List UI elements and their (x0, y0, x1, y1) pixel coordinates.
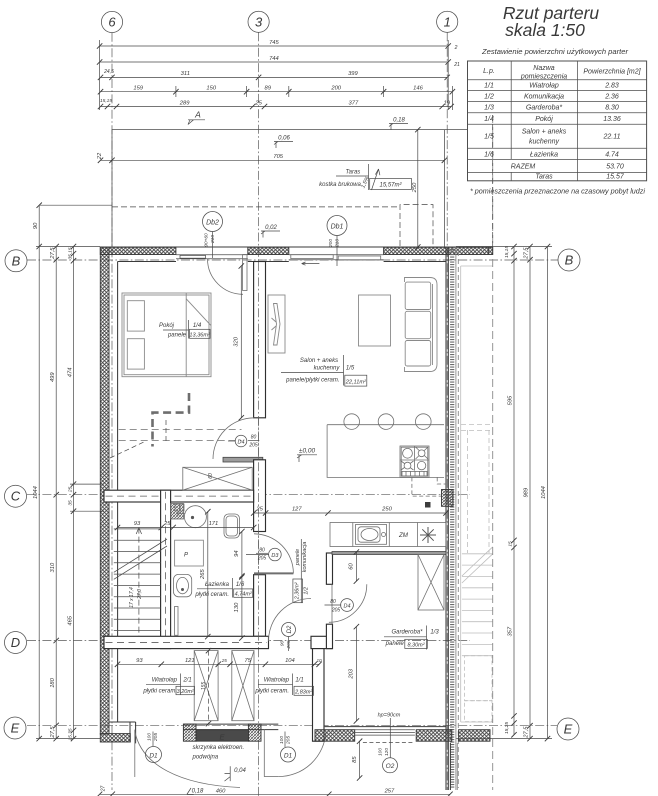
garderoba north wall (332, 552, 446, 555)
closet X right (232, 651, 254, 721)
terrace slope 1.5% arrow (372, 169, 379, 190)
kitchen island counter (327, 425, 444, 478)
bath small symbols (175, 504, 180, 511)
svg-text:705: 705 (273, 154, 283, 160)
svg-text:27,0: 27,0 (137, 589, 143, 600)
bar stools (344, 414, 360, 430)
axis B horizontal (27, 259, 558, 261)
svg-text:Łazienka: Łazienka (205, 582, 230, 588)
svg-text:2: 2 (454, 45, 458, 51)
svg-text:panele/płytki ceram.: panele/płytki ceram. (285, 378, 339, 384)
bed in Pokoj (122, 293, 211, 377)
axis 1 vertical (446, 32, 448, 790)
svg-text:podwójna: podwójna (192, 755, 219, 761)
area table (468, 61, 647, 181)
svg-text:8,30m²: 8,30m² (407, 643, 424, 649)
stairs walking line (138, 528, 140, 636)
komunikacja east wall upper (326, 553, 332, 584)
kitchen dim row 25/127/250 (254, 512, 446, 514)
dim 203 (355, 627, 357, 721)
svg-text:89: 89 (264, 86, 271, 92)
svg-text:8.30: 8.30 (605, 105, 619, 112)
svg-text:989: 989 (524, 487, 530, 497)
svg-text:A: A (194, 110, 201, 120)
left dim chain 90/1044 (38, 205, 40, 738)
svg-text:1/5: 1/5 (346, 366, 355, 372)
svg-text:4.74: 4.74 (605, 151, 619, 158)
party wall right (446, 247, 448, 790)
door D1 left 100/205 (134, 730, 136, 777)
svg-text:120: 120 (384, 748, 390, 756)
svg-text:Salon + aneks: Salon + aneks (300, 358, 338, 364)
svg-text:1/2: 1/2 (484, 93, 494, 100)
svg-text:93: 93 (134, 521, 141, 527)
dim 60 garderoba nook (355, 552, 357, 581)
right dim chain 1044 (547, 247, 549, 739)
svg-text:Db1: Db1 (331, 224, 344, 231)
dim 85 entrance (359, 741, 361, 778)
svg-text:1044: 1044 (33, 486, 39, 499)
svg-text:kuchenny: kuchenny (314, 366, 341, 372)
svg-text:E: E (11, 721, 20, 736)
terrace dim 705 and 22 (101, 159, 445, 161)
svg-text:panele: panele (385, 641, 405, 647)
svg-text:Taras: Taras (535, 174, 553, 181)
svg-text:D: D (11, 635, 20, 650)
svg-text:Powierzchnia [m2]: Powierzchnia [m2] (583, 69, 641, 76)
svg-text:płytki ceram.: płytki ceram. (142, 689, 177, 695)
svg-text:80: 80 (330, 599, 336, 605)
svg-text:1/6: 1/6 (236, 582, 245, 588)
svg-text:499: 499 (50, 372, 56, 382)
axis 3 overlay through walls (258, 262, 260, 648)
closet X left (194, 651, 218, 721)
svg-text:1/3: 1/3 (430, 630, 439, 636)
svg-text:1: 1 (444, 14, 451, 29)
left dim chain 35,15/474/25/35/465/15,35 (73, 247, 75, 739)
svg-text:25: 25 (255, 506, 263, 512)
right dim chain 15,15/595/15/357/15,25 (513, 247, 515, 735)
svg-text:377: 377 (349, 100, 359, 106)
svg-text:Salon + aneks: Salon + aneks (522, 129, 567, 136)
door D4 pokoj 80/205 (213, 418, 254, 459)
svg-text:100: 100 (279, 736, 285, 744)
svg-text:skala 1:50: skala 1:50 (505, 20, 585, 40)
svg-text:27,5: 27,5 (50, 726, 56, 739)
svg-text:D4: D4 (237, 439, 244, 445)
svg-text:465: 465 (68, 615, 74, 625)
terrace paving dashed edge (112, 206, 400, 208)
svg-text:0,06: 0,06 (278, 136, 290, 142)
svg-text:205: 205 (257, 556, 267, 562)
terrace dim 250 (417, 130, 419, 247)
svg-text:27,5: 27,5 (524, 726, 530, 739)
left dim chain 27,5/499/310/180/27,5 (55, 247, 57, 739)
svg-text:0,02: 0,02 (265, 225, 277, 231)
wall D bath south (104, 636, 269, 648)
toilet (224, 514, 240, 538)
svg-text:93: 93 (136, 658, 143, 664)
svg-text:53.70: 53.70 (606, 164, 624, 171)
svg-text:100: 100 (378, 748, 384, 756)
svg-text:155: 155 (201, 682, 207, 691)
svg-text:205: 205 (286, 736, 292, 745)
svg-text:Pokój: Pokój (159, 323, 175, 329)
mirrored unit boundary dashed (492, 115, 494, 790)
svg-text:B: B (12, 253, 21, 268)
svg-text:80: 80 (259, 548, 265, 554)
svg-text:P: P (184, 553, 188, 559)
svg-text:90: 90 (33, 222, 39, 229)
washbasin (174, 574, 192, 596)
bath corner basin hatch (171, 504, 184, 520)
axis 3 vertical (258, 32, 260, 796)
svg-text:1044: 1044 (541, 486, 547, 499)
svg-text:skrzynka elektroen.: skrzynka elektroen. (193, 745, 245, 751)
svg-text:210: 210 (335, 239, 341, 248)
top dimension row 744 (100, 61, 449, 63)
svg-text:205: 205 (286, 640, 292, 649)
radiator bath (175, 607, 179, 636)
electrical box E (skrzynka) (196, 730, 248, 741)
svg-text:1/4: 1/4 (193, 323, 202, 329)
svg-text:19: 19 (443, 100, 450, 106)
svg-text:Wiatrołap: Wiatrołap (529, 83, 559, 90)
svg-text:311: 311 (181, 71, 190, 77)
svg-text:C: C (11, 489, 21, 504)
svg-text:265: 265 (200, 569, 206, 580)
svg-text:310: 310 (50, 562, 56, 572)
svg-text:60: 60 (349, 563, 355, 570)
door D1 right 100/205 (263, 730, 265, 777)
kitchen north wall stub (223, 457, 263, 462)
bottom-left exterior wall corner (100, 734, 130, 742)
svg-text:2,83m²: 2,83m² (294, 689, 312, 695)
svg-text:2.36: 2.36 (604, 93, 619, 100)
sofa (405, 278, 438, 372)
svg-text:Zestawienie powierzchni użytko: Zestawienie powierzchni użytkowych parte… (481, 47, 629, 56)
svg-text:35,15: 35,15 (68, 247, 74, 259)
svg-text:205: 205 (153, 733, 159, 742)
pokoj interior dim 320 (240, 266, 242, 418)
svg-text:27,5: 27,5 (524, 247, 530, 260)
top dimension row 745 (100, 45, 449, 47)
gas stove (400, 446, 429, 477)
svg-text:203: 203 (349, 668, 355, 679)
door D2 90/205 (269, 599, 312, 642)
svg-text:399: 399 (348, 71, 358, 77)
svg-text:13.36: 13.36 (603, 116, 621, 123)
svg-text:25: 25 (221, 658, 228, 663)
svg-text:2,36m²: 2,36m² (294, 582, 300, 600)
axis C horizontal (27, 494, 470, 496)
svg-text:75: 75 (245, 658, 252, 664)
kitchen lower counter (330, 523, 446, 547)
svg-text:Pokój: Pokój (535, 116, 553, 123)
interior dim row 93/121/25/75/104/10 (118, 663, 320, 665)
bath big circle fixture (184, 506, 206, 528)
svg-text:90+60: 90+60 (204, 233, 210, 247)
svg-text:15,25: 15,25 (504, 722, 510, 734)
stairs break line (114, 546, 167, 579)
wall C pokoj south / bath north (104, 490, 254, 502)
svg-text:0,04: 0,04 (234, 768, 246, 774)
svg-text:L.p.: L.p. (483, 68, 495, 75)
extension lines top (100, 40, 453, 110)
svg-text:0,18: 0,18 (393, 118, 405, 124)
svg-text:15,19: 15,19 (100, 98, 112, 104)
svg-text:22.11: 22.11 (603, 134, 621, 141)
svg-text:94: 94 (234, 550, 240, 556)
svg-text:171: 171 (209, 521, 219, 527)
svg-text:27: 27 (101, 786, 107, 793)
svg-text:10: 10 (316, 658, 322, 663)
svg-text:komunikacja: komunikacja (302, 542, 308, 573)
garderoba south wall with window O2 (325, 726, 446, 728)
wiatrolap/garderoba wall (313, 649, 325, 742)
axis 6 vertical (111, 33, 113, 790)
svg-text:2/1: 2/1 (182, 678, 191, 684)
svg-text:kuchenny: kuchenny (529, 139, 559, 146)
svg-text:595: 595 (508, 395, 514, 405)
svg-text:* pomieszczenia przeznaczone n: * pomieszczenia przeznaczone na czasowy … (470, 187, 645, 196)
svg-text:Wiatrołap: Wiatrołap (264, 678, 290, 684)
svg-text:3: 3 (255, 14, 263, 29)
axis D horizontal (27, 640, 470, 642)
svg-text:3,20m²: 3,20m² (177, 689, 194, 695)
svg-text:80: 80 (251, 435, 257, 441)
svg-text:250: 250 (381, 506, 392, 512)
svg-text:744: 744 (269, 56, 279, 62)
svg-text:1/1: 1/1 (484, 83, 494, 90)
window O2 100/120 (355, 729, 415, 731)
svg-text:60: 60 (208, 473, 214, 479)
svg-text:146: 146 (413, 86, 423, 92)
left exterior wall (100, 247, 109, 734)
svg-text:180: 180 (50, 677, 56, 687)
svg-text:127: 127 (292, 506, 302, 512)
svg-text:0,18: 0,18 (192, 789, 204, 795)
svg-text:Wiatrołap: Wiatrołap (152, 678, 178, 684)
wall stairs/bath (161, 490, 171, 648)
svg-text:159: 159 (133, 86, 143, 92)
svg-text:205: 205 (331, 608, 341, 614)
svg-text:15,57m²: 15,57m² (379, 183, 402, 189)
svg-text:35: 35 (68, 500, 74, 506)
svg-text:289: 289 (179, 100, 190, 106)
svg-text:745: 745 (269, 40, 279, 46)
svg-text:22: 22 (97, 152, 103, 160)
svg-text:±0,00: ±0,00 (299, 448, 316, 455)
svg-text:205: 205 (248, 443, 258, 449)
terrace outline (112, 130, 468, 247)
svg-text:Taras: Taras (346, 170, 361, 176)
svg-text:2.83: 2.83 (604, 83, 619, 90)
neighbouring mirrored unit outline (461, 266, 493, 722)
svg-text:21: 21 (453, 62, 460, 68)
axis E horizontal (27, 724, 557, 726)
svg-text:25: 25 (163, 521, 171, 527)
svg-text:100: 100 (147, 733, 153, 741)
svg-text:panele: panele (167, 333, 187, 339)
staircase (114, 529, 161, 631)
svg-text:ZM: ZM (398, 532, 409, 539)
dim 265 bath length (207, 512, 209, 637)
svg-text:460: 460 (216, 788, 226, 794)
svg-text:357: 357 (508, 626, 514, 636)
svg-text:13,36m²: 13,36m² (189, 332, 211, 338)
svg-text:1/1: 1/1 (295, 678, 303, 684)
mirrored staircase steps (462, 547, 493, 722)
TV sideboard (268, 295, 285, 353)
svg-text:O2: O2 (386, 763, 395, 770)
svg-text:24,5: 24,5 (103, 69, 114, 75)
svg-text:D4: D4 (343, 604, 350, 610)
wall bath east below door D3 (254, 575, 266, 637)
svg-text:B: B (565, 253, 574, 268)
svg-text:17 x 17,4: 17 x 17,4 (129, 587, 135, 608)
svg-text:Garderoba*: Garderoba* (526, 105, 562, 112)
svg-text:Garderoba*: Garderoba* (391, 630, 423, 636)
svg-text:15.57: 15.57 (606, 174, 625, 181)
wall between Pokoj and Salon (254, 262, 266, 418)
svg-text:D2: D2 (287, 625, 293, 633)
svg-text:4,74m²: 4,74m² (235, 592, 252, 598)
svg-text:90: 90 (280, 641, 286, 647)
dim 94 (241, 532, 243, 576)
svg-text:płytki ceram.: płytki ceram. (194, 592, 229, 598)
svg-text:1/2: 1/2 (304, 587, 310, 595)
right dim chain 27,5/989/27,5 (529, 247, 531, 739)
svg-text:Nazwa: Nazwa (533, 65, 555, 72)
stairs interior dim 93/25/171 (118, 527, 254, 529)
svg-text:121: 121 (185, 658, 195, 664)
svg-text:pomieszczenia: pomieszczenia (520, 74, 567, 81)
svg-text:Komunikacja: Komunikacja (524, 93, 564, 100)
top dimension row 311/399 (101, 76, 448, 78)
svg-text:320: 320 (234, 336, 240, 346)
svg-text:1/3: 1/3 (484, 105, 494, 112)
svg-text:Db2: Db2 (206, 220, 219, 227)
svg-text:250: 250 (412, 182, 418, 193)
svg-text:6: 6 (108, 15, 116, 30)
top exterior wall (100, 246, 492, 248)
svg-text:130: 130 (234, 602, 240, 612)
svg-text:27,5: 27,5 (50, 247, 56, 260)
svg-text:RAZEM: RAZEM (511, 164, 536, 171)
kitchen sink (356, 525, 387, 545)
right extension lines (456, 247, 552, 739)
door D3 bath 80/205 (254, 572, 293, 574)
wall D piece right of door D2 (311, 636, 332, 648)
coffee table (359, 295, 391, 346)
svg-text:15: 15 (508, 541, 514, 547)
svg-text:hp=90cm: hp=90cm (378, 713, 401, 719)
svg-text:panele: panele (295, 549, 301, 567)
kitchen tall units with X (183, 467, 252, 490)
overhead dashed lines pokoj (119, 429, 242, 431)
svg-text:150: 150 (206, 86, 216, 92)
svg-text:kostka brukowa: kostka brukowa (319, 182, 361, 188)
entrance pier with electro box (183, 723, 278, 725)
svg-text:85: 85 (352, 756, 358, 763)
svg-text:Łazienka: Łazienka (530, 151, 558, 158)
bottom dim row 27/460/257 (100, 793, 450, 795)
svg-text:200: 200 (328, 239, 334, 248)
svg-text:25: 25 (254, 100, 262, 106)
flue conduit dashed (412, 477, 446, 496)
svg-text:474: 474 (68, 368, 74, 378)
right wall bottom piece (449, 743, 451, 790)
svg-text:200: 200 (330, 86, 341, 92)
svg-text:D3: D3 (271, 553, 279, 559)
top dimension row 15,19/289/25/377/19 (101, 106, 452, 108)
svg-text:22,11m²: 22,11m² (345, 379, 367, 385)
svg-text:104: 104 (285, 658, 295, 664)
svg-text:D1: D1 (149, 753, 158, 760)
wardrobe garderoba (418, 555, 444, 611)
svg-text:E: E (564, 722, 573, 737)
wall salon/kitchen below door D4 (254, 460, 266, 532)
dim 130 (241, 577, 243, 638)
door D4 garderoba 80/205 (329, 584, 367, 622)
top dimension row openings 159/150/89/200/146 (101, 91, 453, 93)
svg-text:210: 210 (210, 235, 216, 244)
svg-text:płytki ceram.: płytki ceram. (254, 689, 289, 695)
svg-text:D1: D1 (284, 752, 293, 759)
shower (175, 540, 204, 566)
sliding balcony door Db1 200/210 (289, 246, 384, 248)
komunikacja east wall lower (326, 624, 332, 648)
svg-text:257: 257 (384, 788, 395, 794)
svg-text:15,15: 15,15 (504, 246, 510, 258)
left extension lines (36, 247, 104, 739)
fridge symbol (420, 527, 436, 543)
balcony door Db2 90+60/210 (176, 246, 248, 248)
svg-text:25: 25 (68, 486, 74, 493)
flue box in wall (442, 490, 454, 507)
